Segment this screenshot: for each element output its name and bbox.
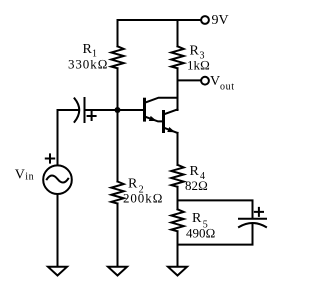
transistor Q2 emitter arrow	[167, 127, 175, 132]
capacitor C1 plus sign	[88, 112, 96, 120]
svg-text:1kΩ: 1kΩ	[187, 57, 210, 72]
svg-text:200kΩ: 200kΩ	[123, 191, 164, 206]
capacitor C2 plus sign	[255, 208, 263, 216]
wire base node down to R2	[117, 110, 119, 182]
svg-text:R: R	[192, 211, 202, 226]
source Vin circle	[43, 165, 72, 194]
transistor Q2 base bar	[162, 110, 165, 133]
capacitor C2 top plate	[239, 218, 266, 220]
transistor Q1 collector	[145, 98, 178, 103]
resistor R2	[111, 182, 123, 204]
svg-text:490Ω: 490Ω	[186, 226, 216, 241]
source Vin plus sign	[46, 154, 54, 162]
transistor Q1 base bar	[143, 98, 146, 122]
svg-text:82Ω: 82Ω	[185, 178, 208, 193]
resistor R5	[171, 209, 183, 231]
capacitor C1 straight plate	[84, 98, 86, 122]
wire input to cap	[58, 109, 80, 111]
resistor R3	[171, 46, 183, 68]
source Vin sine wave	[47, 175, 68, 182]
svg-text:R: R	[128, 177, 138, 192]
ground R5 branch	[168, 267, 187, 276]
svg-text:out: out	[220, 82, 235, 93]
node base junction dot	[115, 107, 121, 113]
wire cap corner down to source	[57, 110, 59, 165]
svg-text:9V: 9V	[212, 13, 229, 28]
wire base node to Q1 base	[118, 109, 145, 111]
terminal Vout circle	[201, 77, 209, 85]
wire R4 bottom to R5 top	[177, 187, 179, 210]
wire R1 bottom to base node	[117, 68, 119, 110]
transistor Q1 emitter arrow	[149, 116, 157, 121]
wire top supply rail	[118, 19, 201, 21]
terminal 9V circle	[201, 16, 209, 24]
svg-text:R: R	[190, 44, 200, 59]
wire bypass cap bottom to ground node	[178, 225, 253, 245]
wire rail to R1 top	[117, 20, 119, 46]
capacitor C1 curved plate	[75, 98, 80, 122]
wire R5 bottom to ground	[177, 231, 179, 266]
capacitor C2 bottom plate arc	[239, 223, 266, 227]
svg-text:V: V	[210, 74, 220, 89]
wire source to ground	[57, 194, 59, 266]
resistor R4	[171, 165, 183, 187]
transistor Q2 emitter	[164, 128, 178, 133]
wire Vout tap	[178, 79, 202, 81]
svg-text:330kΩ: 330kΩ	[68, 56, 109, 71]
resistor R1	[111, 46, 123, 68]
wire R3 bottom to collector rail	[177, 68, 179, 110]
transistor Q2 collector	[164, 109, 178, 114]
wire Q2 emitter to R4	[177, 133, 179, 165]
ground R2 branch	[108, 267, 127, 276]
wire emitter node to bypass cap top	[178, 200, 253, 218]
svg-text:in: in	[25, 172, 34, 183]
wire cap to base node	[85, 109, 118, 111]
svg-text:R: R	[83, 42, 93, 57]
wire rail to R3 top	[177, 20, 179, 46]
ground Vin branch	[48, 267, 67, 276]
wire R2 bottom to ground	[117, 204, 119, 267]
transistor Q1 emitter	[145, 117, 164, 122]
svg-text:V: V	[15, 168, 25, 183]
svg-text:R: R	[190, 164, 200, 179]
